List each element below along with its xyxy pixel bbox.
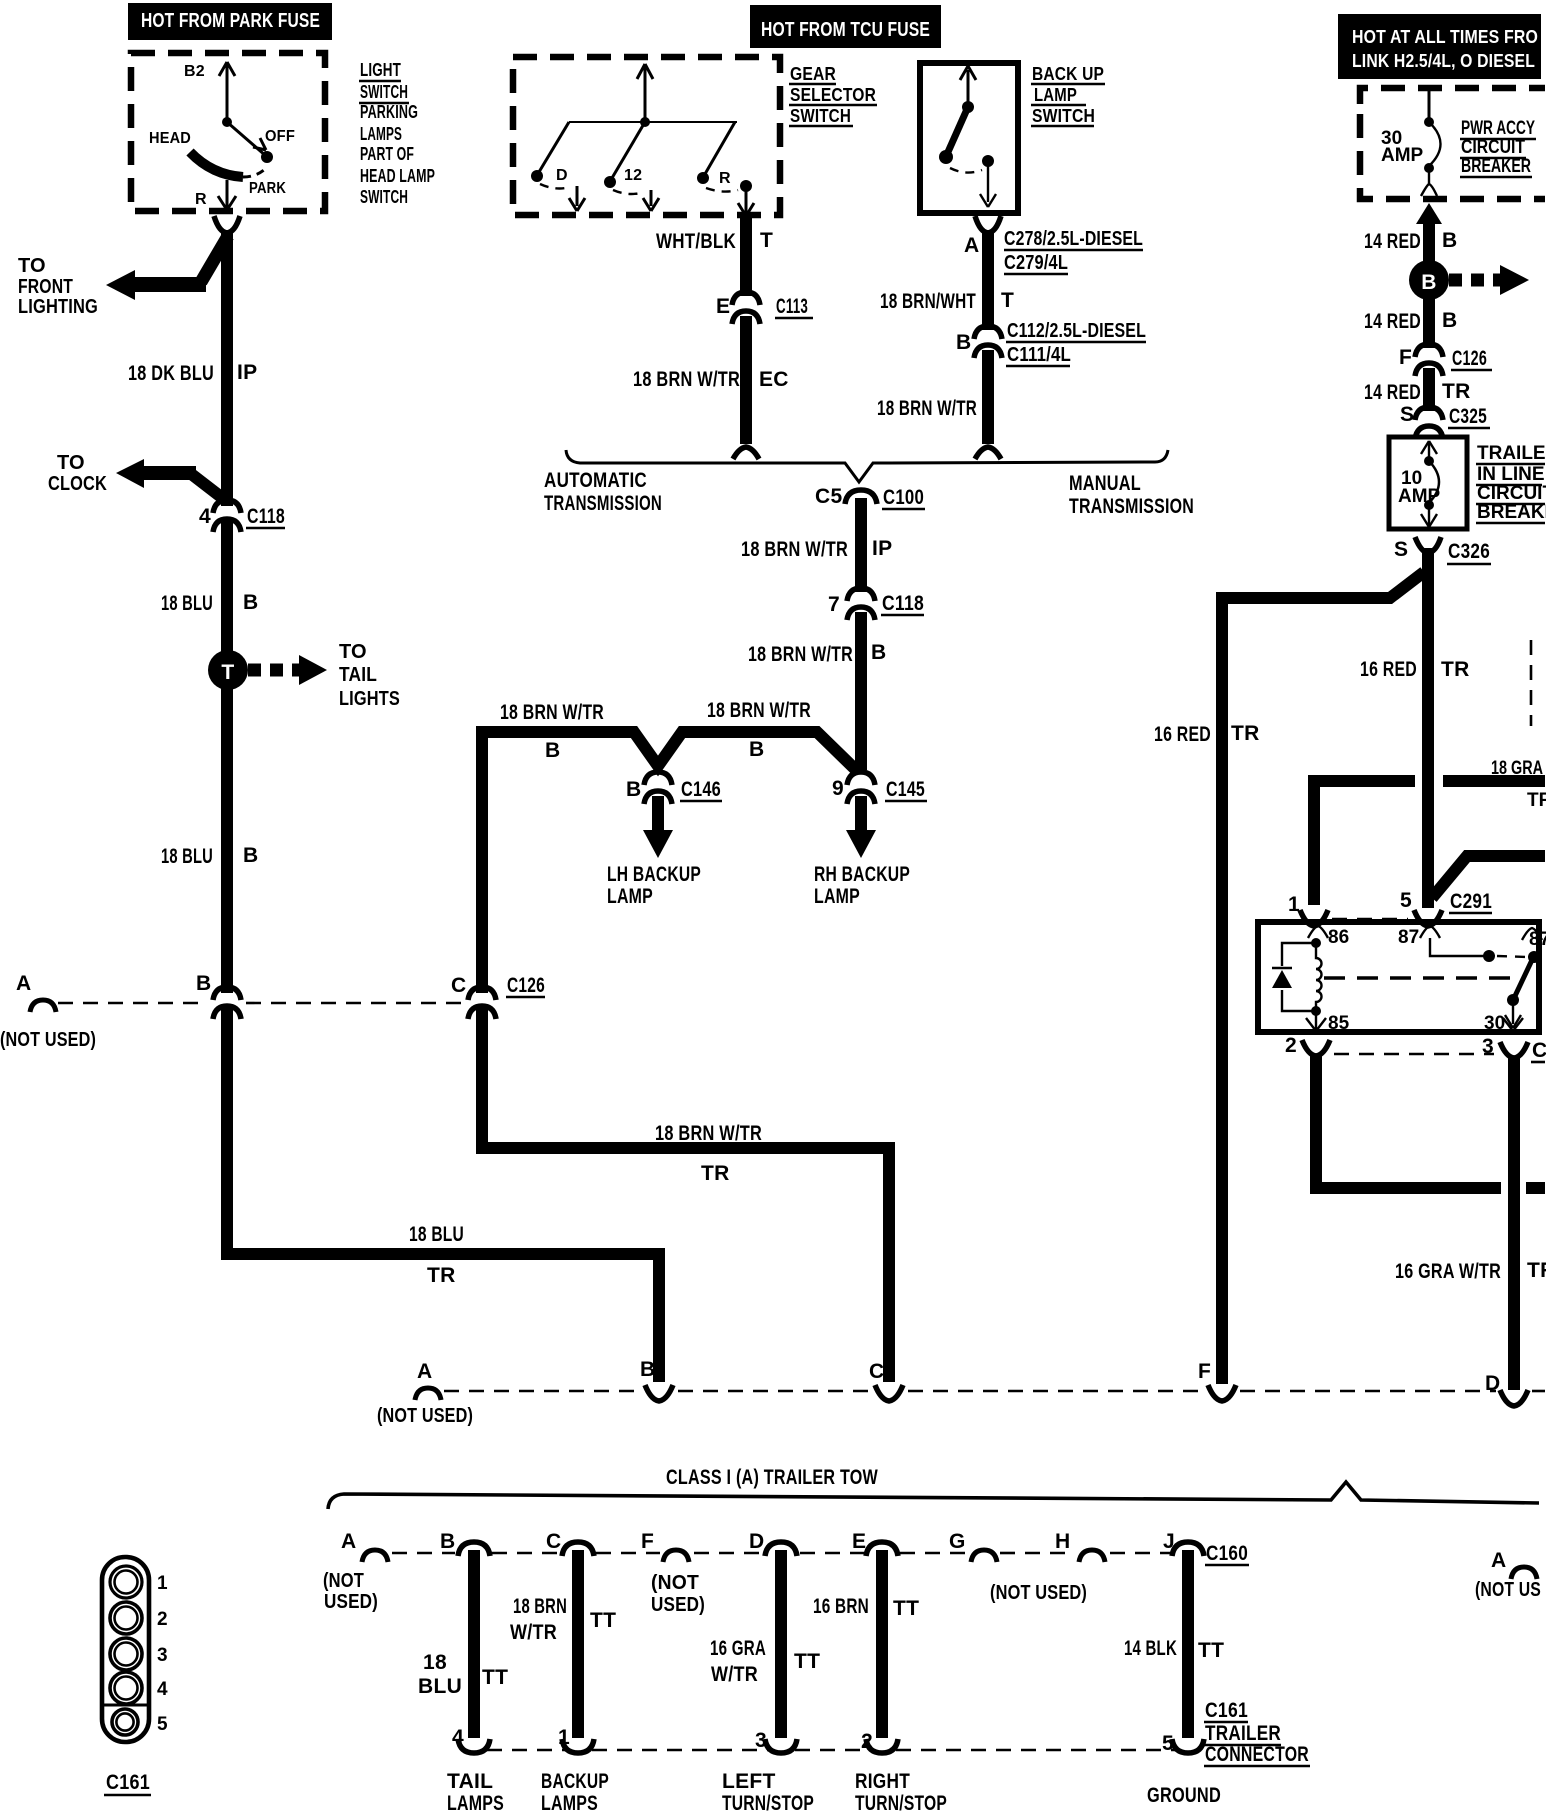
trailer row bottom dashed wire [487,1749,565,1752]
svg-text:PART OF: PART OF [360,143,414,164]
svg-text:W/TR: W/TR [510,1621,557,1644]
svg-text:30: 30 [1484,1013,1505,1034]
label TO FRONT LIGHTING [18,255,98,318]
wire to front lighting branch [201,236,228,282]
relay switch contact from 87 [1430,938,1486,956]
relay pin 87 [1420,926,1440,938]
svg-text:C145: C145 [886,778,925,801]
trailer row dashed wire [392,1552,455,1555]
transmission brace [566,450,1168,482]
svg-text:LAMP: LAMP [814,885,860,908]
connector C5 C100 [845,490,877,504]
svg-text:RIGHT: RIGHT [855,1770,910,1793]
wire 16 RED TR to C291 [1422,548,1434,908]
light switch contacts [218,62,266,210]
wire 18 BRN W/TR TR bottom run [482,738,889,1382]
svg-text:C146: C146 [681,778,721,801]
relay clamp diode [1282,943,1316,1011]
label RH BACKUP LAMP [814,863,910,908]
svg-text:(NOT: (NOT [323,1570,364,1592]
svg-text:C112/2.5L-DIESEL: C112/2.5L-DIESEL [1007,320,1146,342]
wire from 18 GRA down to relay pin 1 [1308,775,1320,905]
svg-text:16 GRA: 16 GRA [710,1637,766,1660]
label TAIL LAMPS [447,1770,504,1812]
wire 18 BRN W/TR EC [740,316,752,444]
svg-text:TAIL: TAIL [339,664,377,686]
light switch S1 dashed box [131,53,325,211]
wire backup lamp feed branch left [482,732,858,772]
svg-text:TR: TR [701,1162,730,1185]
dashed row [444,1390,640,1393]
svg-text:1: 1 [558,1726,570,1749]
dashed connector row C291 [1332,918,1408,921]
svg-text:HOT AT ALL TIMES FRO: HOT AT ALL TIMES FRO [1352,26,1538,47]
svg-text:18 BRN W/TR: 18 BRN W/TR [877,397,977,420]
wire 16 GRA W/TR from relay pin 3 [1508,1056,1520,1390]
svg-text:B: B [1442,309,1457,332]
svg-text:A: A [964,234,979,257]
svg-text:86: 86 [1328,927,1349,948]
svg-text:USED): USED) [324,1591,378,1613]
contact R [705,122,735,174]
svg-text:7: 7 [828,593,840,616]
svg-text:B: B [640,1358,655,1381]
svg-text:3: 3 [157,1645,168,1666]
svg-text:LAMPS: LAMPS [447,1792,504,1812]
svg-text:LIGHT: LIGHT [360,59,401,80]
svg-text:HEAD LAMP: HEAD LAMP [360,165,435,186]
label LEFT TURN/STOP [722,1770,814,1812]
connector A C278 [975,216,1001,233]
svg-text:C126: C126 [507,974,545,997]
pin circle 4 [110,1672,142,1704]
svg-text:18 BRN W/TR: 18 BRN W/TR [500,701,604,724]
svg-text:F: F [1399,346,1412,369]
svg-text:87: 87 [1398,927,1419,948]
svg-text:IP: IP [872,537,892,560]
connector 4 C118 [213,500,241,532]
svg-text:LINK H2.5/4L, O DIESEL: LINK H2.5/4L, O DIESEL [1352,50,1535,71]
contact D [539,122,569,172]
svg-text:C: C [869,1360,884,1383]
svg-text:C111/4L: C111/4L [1007,344,1071,366]
svg-text:5: 5 [1162,1732,1174,1755]
svg-text:C118: C118 [882,592,924,615]
svg-text:TRANSMISSION: TRANSMISSION [544,492,662,515]
svg-text:TT: TT [482,1666,508,1689]
svg-text:USED): USED) [651,1594,705,1616]
svg-text:TRAILER: TRAILER [1205,1722,1281,1745]
svg-text:C161: C161 [106,1771,150,1794]
10A breaker element [1428,443,1430,458]
svg-text:BACKUP: BACKUP [541,1770,609,1793]
label RIGHT TURN/STOP [855,1770,947,1812]
gear selector feed arrow [569,64,737,122]
svg-text:C160: C160 [1206,1542,1248,1565]
svg-text:18 BRN/WHT: 18 BRN/WHT [880,290,976,313]
svg-text:(NOT USED): (NOT USED) [377,1405,473,1427]
svg-text:LAMPS: LAMPS [541,1792,598,1812]
svg-text:D: D [556,167,568,184]
relay pin 87A at edge [1522,928,1542,940]
relay coil [1311,938,1321,948]
svg-text:TO: TO [57,452,85,474]
svg-text:F: F [1198,1360,1211,1383]
svg-text:F: F [641,1530,654,1553]
backup lamp switch wiper [948,107,968,152]
wire branch from C291 up right to page edge [1432,856,1545,898]
svg-text:C161: C161 [1205,1699,1248,1722]
arrow to clock [116,459,144,488]
svg-text:HOT FROM TCU FUSE: HOT FROM TCU FUSE [761,19,930,41]
edge dashed wire stub [1530,640,1533,726]
svg-text:C126: C126 [1452,347,1487,370]
30A breaker element [1428,89,1431,119]
wire 14 RED TR [1423,368,1435,411]
svg-text:5: 5 [157,1714,168,1735]
svg-text:TR: TR [1231,722,1260,745]
feed label HOT AT ALL TIMES FROM FUSE LINK [1338,14,1541,79]
svg-text:TURN/STOP: TURN/STOP [855,1792,947,1812]
svg-text:CONNECTOR: CONNECTOR [1205,1743,1309,1766]
switch OFF position dot [261,151,273,163]
svg-text:TR: TR [427,1264,456,1287]
connector F C126 [1415,344,1443,376]
svg-text:H: H [1055,1530,1070,1553]
relay switch arm [1515,960,1532,996]
splice junction B [1409,260,1449,300]
svg-text:14 RED: 14 RED [1364,230,1421,253]
switch name text LIGHT SWITCH PARKING LAMPS PART OF HEAD LAMP SWITCH [360,59,435,207]
svg-text:2: 2 [1285,1034,1297,1057]
connector 7 C118 [847,588,875,620]
pwr accy circuit breaker dashed box [1360,88,1545,199]
splice junction T [208,650,248,690]
wire 16 RED TR vertical to trailer row [1216,592,1228,1384]
svg-text:A: A [1491,1549,1506,1572]
svg-text:WHT/BLK: WHT/BLK [656,230,736,253]
wire 18 BRN W/TR [982,350,994,444]
switch wiper arm [190,152,243,177]
svg-text:TAIL: TAIL [447,1770,493,1793]
page right margin [1546,0,1568,1812]
svg-text:LAMP: LAMP [1034,84,1077,105]
svg-text:4: 4 [157,1679,168,1700]
contact 12 [612,122,645,178]
pin circle 5 [112,1709,138,1735]
svg-text:TO: TO [339,641,367,663]
svg-text:TT: TT [590,1609,616,1632]
svg-text:IP: IP [237,361,257,384]
svg-text:(NOT USED): (NOT USED) [0,1029,96,1051]
connector gap at C C126 on this wire [468,987,496,1019]
svg-text:TT: TT [794,1650,820,1673]
label AUTOMATIC TRANSMISSION [544,469,662,515]
svg-text:TT: TT [1198,1639,1224,1662]
pin circle 1 [110,1566,142,1598]
label TO CLOCK [48,452,107,495]
svg-text:TURN/STOP: TURN/STOP [722,1792,814,1812]
svg-text:HEAD: HEAD [149,130,191,147]
svg-text:A: A [16,972,31,995]
svg-text:W/TR: W/TR [711,1663,758,1686]
svg-text:16 BRN: 16 BRN [813,1595,869,1618]
svg-text:AMP: AMP [1398,486,1441,507]
svg-text:16 RED: 16 RED [1154,723,1211,746]
connector S C326 [1415,537,1441,553]
svg-text:18 BRN: 18 BRN [513,1595,567,1618]
svg-text:D: D [749,1530,764,1553]
wire 18 DK BLU main vertical [221,230,233,995]
svg-text:(NOT: (NOT [651,1572,699,1594]
connector E C113 [732,292,760,324]
svg-text:9: 9 [832,777,844,800]
svg-text:14 BLK: 14 BLK [1124,1637,1177,1660]
svg-text:18 BLU: 18 BLU [161,845,213,868]
svg-text:C325: C325 [1449,405,1487,428]
svg-text:LAMPS: LAMPS [360,123,402,144]
svg-text:A: A [417,1360,432,1383]
wire stub to page edge [1526,1182,1545,1194]
svg-text:C279/4L: C279/4L [1004,252,1068,274]
svg-text:14 RED: 14 RED [1364,310,1421,333]
svg-text:C278/2.5L-DIESEL: C278/2.5L-DIESEL [1004,228,1143,250]
svg-text:TR: TR [1441,658,1470,681]
svg-text:OFF: OFF [265,128,295,145]
wire end fork at manual transmission [975,447,1001,459]
svg-text:4: 4 [199,505,211,528]
svg-text:C291: C291 [1450,890,1492,913]
svg-text:B2: B2 [184,63,205,80]
svg-text:18: 18 [423,1651,447,1674]
svg-text:C5: C5 [815,485,842,508]
connector S C325 [1415,407,1443,439]
svg-text:LEFT: LEFT [722,1770,776,1793]
svg-text:C118: C118 [247,505,285,528]
svg-text:3: 3 [755,1729,767,1752]
wire from relay pin 2 [1316,1054,1501,1188]
svg-text:T: T [1001,289,1014,312]
label PWR ACCY CIRCUIT BREAKER [1461,118,1535,177]
connector B C146 [644,772,672,804]
svg-text:B: B [196,972,211,995]
gear selector switch dashed box [513,57,780,215]
svg-text:B: B [749,738,764,761]
pin circle 2 [110,1602,142,1634]
svg-text:TR: TR [1442,380,1471,403]
svg-text:TRANSMISSION: TRANSMISSION [1069,495,1194,518]
svg-text:S: S [1394,538,1408,561]
svg-text:18 BLU: 18 BLU [409,1223,464,1246]
svg-text:PWR ACCY: PWR ACCY [1461,118,1535,139]
svg-text:MANUAL: MANUAL [1069,472,1141,495]
svg-text:CLOCK: CLOCK [48,473,107,495]
switch pivot dot [222,117,232,127]
pin circle 3 [110,1638,142,1670]
svg-text:C: C [546,1530,561,1553]
wire 14 RED B below splice [1423,298,1435,348]
svg-text:HOT FROM PARK FUSE: HOT FROM PARK FUSE [141,10,320,32]
wire 14 RED B with up arrow [1416,203,1442,224]
label TO TAIL LIGHTS [339,641,400,710]
svg-text:LIGHTING: LIGHTING [18,296,98,318]
dashed connector row below relay [1334,1053,1494,1056]
svg-text:BACK UP: BACK UP [1032,63,1104,84]
svg-text:SWITCH: SWITCH [360,186,408,207]
feed node dot [640,117,650,127]
connector 9 C145 [847,772,875,804]
svg-text:5: 5 [1400,889,1412,912]
svg-text:AUTOMATIC: AUTOMATIC [544,469,647,492]
svg-text:LAMP: LAMP [607,885,653,908]
svg-text:18 BRN W/TR: 18 BRN W/TR [633,368,740,391]
svg-text:B: B [243,591,258,614]
svg-text:(NOT USED): (NOT USED) [990,1582,1087,1604]
svg-text:GROUND: GROUND [1147,1784,1221,1807]
relay armature dashed link [1324,976,1520,979]
label TRAILER IN LINE CIRCUIT BREAKER [1477,443,1568,523]
svg-text:18 BRN W/TR: 18 BRN W/TR [748,643,853,666]
trailer tow relay box [1258,922,1539,1032]
wire end fork at automatic transmission [733,447,759,459]
svg-text:R: R [719,170,731,187]
switch name GEAR SELECTOR SWITCH [790,63,876,126]
svg-text:A: A [341,1530,356,1553]
label BACKUP LAMPS [541,1770,609,1812]
svg-text:B: B [871,641,886,664]
svg-text:FRONT: FRONT [18,276,73,298]
svg-text:T: T [760,229,773,252]
feed label HOT FROM TCU FUSE [750,5,941,48]
R output node [740,180,752,192]
svg-text:18 DK BLU: 18 DK BLU [128,362,214,385]
label MANUAL TRANSMISSION [1069,472,1194,518]
wire to clock branch [190,473,225,500]
svg-text:T: T [221,661,234,684]
trailer in line circuit breaker box [1389,437,1467,529]
svg-text:E: E [716,295,730,318]
svg-text:C100: C100 [883,486,924,509]
wire WHT/BLK from gear switch [740,214,752,296]
svg-text:TT: TT [893,1597,919,1620]
svg-text:B: B [440,1530,455,1553]
LH backup lamp arrow [652,796,664,832]
svg-text:B: B [1442,229,1457,252]
svg-text:C: C [451,974,466,997]
dashed arrow from B splice [1449,274,1500,287]
svg-text:SELECTOR: SELECTOR [790,84,876,105]
svg-text:SWITCH: SWITCH [1032,105,1095,126]
svg-text:C326: C326 [1448,540,1490,563]
wire 18 BLU TR lower run [227,1008,659,1382]
label LH BACKUP LAMP [607,863,701,908]
svg-text:C113: C113 [776,295,808,318]
dashed wire row [58,1002,208,1005]
svg-text:CLASS I (A) TRAILER TOW: CLASS I (A) TRAILER TOW [666,1466,878,1489]
svg-text:B: B [243,844,258,867]
arrow to front lighting [106,270,135,300]
svg-text:18 BLU: 18 BLU [161,592,213,615]
svg-text:LIGHTS: LIGHTS [339,688,400,710]
svg-text:BLU: BLU [418,1675,462,1698]
dashed arrow to tail lights [248,664,300,677]
svg-text:18 BRN W/TR: 18 BRN W/TR [741,538,848,561]
svg-text:E: E [852,1530,866,1553]
wire 18 GRA crossover horizontal [1314,775,1415,787]
svg-text:EC: EC [759,368,789,391]
svg-text:S: S [1400,403,1414,426]
svg-text:IN LINE: IN LINE [1477,464,1545,485]
svg-text:GEAR: GEAR [790,63,836,84]
wire 18 BRN W/TR B [855,612,867,770]
svg-text:18 BRN W/TR: 18 BRN W/TR [707,699,811,722]
connector fork below light switch [214,216,240,233]
svg-text:B: B [545,739,560,762]
svg-text:SWITCH: SWITCH [360,81,408,102]
svg-text:B: B [1421,271,1436,294]
switch name BACK UP LAMP SWITCH [1032,63,1104,126]
relay pin 86 [1308,926,1328,938]
connector B C112 [974,326,1002,358]
wire 18 BRN/WHT T [982,230,994,330]
wire 18 BRN W/TR IP [855,498,867,592]
svg-text:B: B [626,778,641,801]
svg-text:1: 1 [157,1573,168,1594]
feed label HOT FROM PARK FUSE [128,3,332,40]
svg-text:(NOT US: (NOT US [1475,1579,1541,1601]
svg-text:G: G [949,1530,966,1553]
svg-text:14 RED: 14 RED [1364,381,1421,404]
svg-text:B: B [956,331,971,354]
svg-text:85: 85 [1328,1013,1350,1034]
backup lamp switch feed arrow [967,70,970,107]
svg-text:SWITCH: SWITCH [790,105,851,126]
branch diagonal to 16 RED feed [1222,572,1424,598]
svg-text:18 GRA: 18 GRA [1491,758,1543,779]
svg-text:AMP: AMP [1381,145,1424,166]
svg-text:TO: TO [18,255,46,277]
RH backup lamp arrow [855,796,867,832]
svg-text:R: R [195,191,207,208]
svg-text:PARK: PARK [249,180,286,197]
svg-text:LH BACKUP: LH BACKUP [607,863,701,886]
svg-text:16 GRA W/TR: 16 GRA W/TR [1395,1260,1501,1283]
trailer connector C161 graphic [102,1557,149,1742]
svg-text:2: 2 [861,1730,873,1753]
svg-text:12: 12 [624,167,642,184]
svg-text:16 RED: 16 RED [1360,658,1417,681]
svg-text:RH BACKUP: RH BACKUP [814,863,910,886]
not used cavity A [30,1000,56,1012]
backup lamp switch box [920,63,1018,213]
svg-text:2: 2 [157,1609,168,1630]
svg-text:18 BRN W/TR: 18 BRN W/TR [655,1122,762,1145]
svg-text:4: 4 [452,1726,464,1749]
